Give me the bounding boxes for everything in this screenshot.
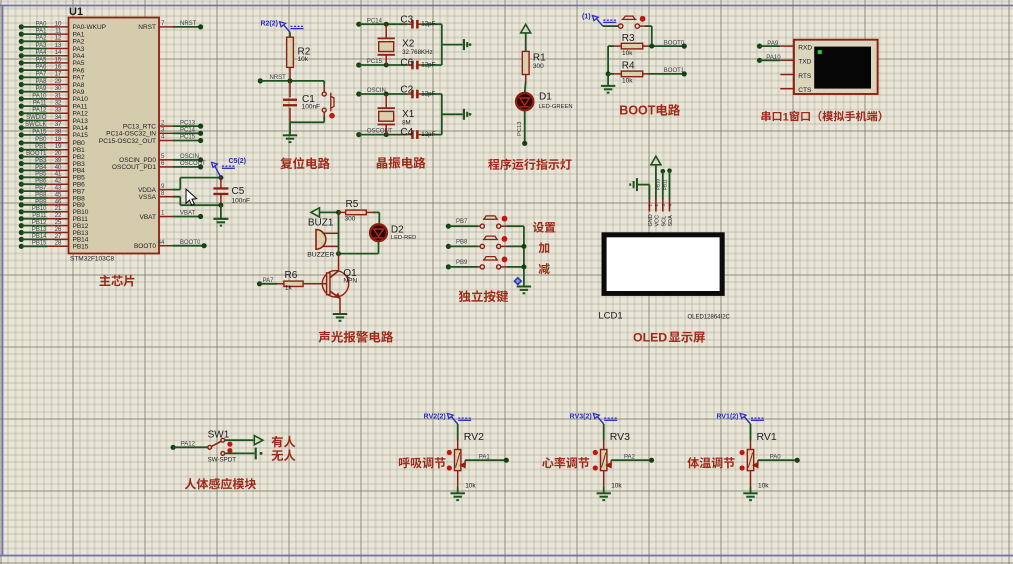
svg-text:PA11: PA11 (73, 103, 88, 110)
svg-text:300: 300 (533, 63, 544, 70)
svg-text:PA15: PA15 (73, 132, 89, 139)
svg-text:10k: 10k (758, 483, 769, 490)
svg-text:PA2: PA2 (73, 39, 85, 46)
svg-text:CTS: CTS (798, 87, 812, 94)
svg-text:8M: 8M (402, 120, 411, 127)
svg-text:OSCIN_PD0: OSCIN_PD0 (119, 157, 156, 164)
svg-text:GND: GND (648, 214, 654, 226)
svg-text:8: 8 (161, 190, 165, 197)
svg-text:SW-SPDT: SW-SPDT (208, 456, 237, 463)
svg-text:STM32F103C8: STM32F103C8 (70, 256, 114, 263)
svg-text:15: 15 (55, 56, 62, 63)
svg-text:RV2: RV2 (464, 431, 484, 443)
svg-text:PA13: PA13 (73, 118, 89, 125)
svg-text:RV3: RV3 (610, 431, 630, 443)
svg-text:PC15: PC15 (180, 135, 196, 141)
svg-text:PA0: PA0 (36, 21, 48, 27)
svg-text:RTS: RTS (798, 73, 812, 80)
svg-text:12pF: 12pF (421, 61, 435, 68)
svg-text:PA11: PA11 (33, 101, 47, 107)
svg-text:PA0: PA0 (770, 454, 782, 460)
svg-text:PA10: PA10 (32, 93, 47, 99)
svg-text:OLED12864I2C: OLED12864I2C (688, 314, 731, 320)
svg-text:PB1: PB1 (35, 144, 47, 150)
svg-text:PB11: PB11 (663, 179, 668, 190)
svg-text:PC13_RTC: PC13_RTC (123, 123, 156, 130)
svg-text:PA5: PA5 (73, 60, 85, 67)
svg-text:34: 34 (55, 114, 62, 121)
svg-text:PB10: PB10 (32, 206, 47, 212)
svg-text:PB9: PB9 (35, 199, 47, 205)
svg-text:PA6: PA6 (36, 65, 48, 71)
svg-text:LED-RED: LED-RED (391, 235, 416, 241)
svg-text:PC13: PC13 (180, 120, 196, 126)
svg-text:NRST: NRST (138, 24, 156, 31)
svg-text:C6: C6 (400, 58, 413, 69)
svg-text:SWCLK: SWCLK (25, 122, 46, 128)
svg-text:BUZZER: BUZZER (307, 252, 334, 259)
svg-text:NPN: NPN (343, 278, 357, 285)
svg-text:BOOT0: BOOT0 (180, 240, 201, 246)
svg-text:NRST: NRST (270, 75, 287, 81)
svg-text:PA9: PA9 (73, 89, 85, 96)
svg-text:PA7: PA7 (263, 278, 275, 284)
svg-text:300: 300 (345, 215, 356, 222)
svg-text:PB5: PB5 (35, 172, 47, 178)
svg-text:44: 44 (158, 239, 165, 246)
svg-text:BOOT1: BOOT1 (26, 151, 47, 157)
svg-text:PA15: PA15 (32, 129, 47, 135)
svg-text:29: 29 (55, 78, 62, 85)
svg-text:PB7: PB7 (456, 219, 468, 225)
svg-text:PA7: PA7 (73, 75, 85, 82)
svg-text:12pF: 12pF (421, 21, 435, 28)
svg-text:6: 6 (161, 160, 165, 167)
svg-text:PA5: PA5 (36, 57, 48, 63)
svg-text:R6: R6 (285, 270, 298, 281)
svg-text:PB3: PB3 (35, 158, 47, 164)
svg-text:32.768KHz: 32.768KHz (402, 49, 433, 56)
svg-text:PA7: PA7 (36, 72, 48, 78)
svg-text:PA4: PA4 (36, 50, 48, 56)
svg-text:PB13: PB13 (32, 227, 47, 233)
svg-text:32: 32 (55, 100, 62, 107)
svg-text:PB14: PB14 (32, 234, 47, 240)
svg-text:9: 9 (161, 183, 165, 190)
svg-text:R2(2): R2(2) (260, 20, 278, 27)
svg-text:PB15: PB15 (32, 241, 47, 247)
svg-text:14: 14 (55, 49, 62, 56)
svg-text:PA2: PA2 (624, 454, 636, 460)
svg-text:10k: 10k (298, 56, 309, 63)
svg-text:BOOT1: BOOT1 (664, 68, 685, 74)
svg-text:VBAT: VBAT (140, 214, 157, 221)
svg-text:RXD: RXD (798, 44, 812, 51)
svg-text:37: 37 (55, 121, 62, 128)
svg-text:10: 10 (55, 20, 62, 27)
svg-text:PA10: PA10 (766, 55, 781, 61)
svg-text:D1: D1 (539, 91, 552, 102)
svg-text:2: 2 (161, 119, 165, 126)
svg-text:SDA: SDA (668, 215, 674, 227)
svg-text:PA12: PA12 (32, 108, 47, 114)
svg-text:LED-GREEN: LED-GREEN (539, 104, 573, 110)
svg-text:PB10: PB10 (656, 178, 661, 190)
svg-text:28: 28 (55, 240, 62, 247)
svg-text:10k: 10k (622, 50, 633, 57)
svg-text:OSCOUT_PD1: OSCOUT_PD1 (112, 164, 156, 171)
svg-text:R4: R4 (622, 61, 635, 72)
svg-text:C3: C3 (400, 15, 413, 26)
svg-text:SW1: SW1 (208, 429, 230, 440)
svg-text:C5: C5 (232, 186, 245, 197)
svg-text:U1: U1 (69, 6, 83, 18)
svg-text:PA10: PA10 (73, 96, 89, 103)
svg-text:PA8: PA8 (73, 82, 85, 89)
svg-text:C2: C2 (400, 84, 413, 95)
svg-text:RV2(2): RV2(2) (424, 413, 446, 420)
svg-text:OLED: OLED (633, 331, 667, 345)
svg-text:16: 16 (55, 64, 62, 71)
svg-text:PC14-OSC32_IN: PC14-OSC32_IN (106, 131, 156, 138)
svg-text:BOOT: BOOT (619, 104, 655, 118)
svg-text:PA8: PA8 (36, 79, 48, 85)
svg-text:PB8: PB8 (456, 239, 468, 245)
svg-text:10k: 10k (611, 483, 622, 490)
svg-text:BUZ1: BUZ1 (308, 217, 334, 228)
svg-text:12pF: 12pF (421, 90, 435, 97)
svg-text:PA9: PA9 (36, 86, 48, 92)
svg-text:OSCIN: OSCIN (180, 154, 199, 160)
svg-text:RV3(2): RV3(2) (570, 413, 592, 420)
svg-text:33: 33 (55, 107, 62, 114)
svg-text:PA12: PA12 (73, 111, 89, 118)
svg-text:1: 1 (161, 210, 165, 217)
svg-text:VSSA: VSSA (139, 194, 157, 201)
svg-text:30: 30 (55, 85, 62, 92)
svg-text:PA14: PA14 (73, 125, 89, 132)
svg-text:PA6: PA6 (73, 67, 85, 74)
svg-text:TXD: TXD (798, 59, 811, 66)
svg-text:11: 11 (55, 28, 62, 35)
svg-text:100nF: 100nF (302, 103, 320, 110)
svg-text:PA3: PA3 (73, 46, 85, 53)
svg-text:12: 12 (55, 35, 62, 42)
svg-text:1: 1 (783, 111, 789, 123)
svg-text:PA1: PA1 (73, 31, 85, 38)
svg-text:10k: 10k (622, 77, 633, 84)
svg-text:PC14: PC14 (180, 128, 196, 134)
svg-text:PB0: PB0 (35, 137, 47, 143)
svg-text:PB11: PB11 (32, 213, 47, 219)
svg-text:12pF: 12pF (421, 131, 435, 138)
svg-text:PA9: PA9 (767, 41, 779, 47)
svg-text:17: 17 (55, 71, 62, 78)
svg-text:4: 4 (161, 134, 165, 141)
svg-text:PC13: PC13 (517, 121, 523, 136)
svg-text:PC15-OSC32_OUT: PC15-OSC32_OUT (99, 138, 156, 145)
svg-text:VCC: VCC (655, 215, 661, 227)
svg-text:BOOT0: BOOT0 (134, 243, 156, 250)
svg-text:SCL: SCL (661, 216, 667, 227)
svg-text:100nF: 100nF (232, 198, 250, 205)
svg-text:SWDIO: SWDIO (26, 115, 47, 121)
svg-text:PA3: PA3 (36, 43, 48, 49)
svg-text:VBAT: VBAT (180, 211, 196, 217)
svg-text:5: 5 (161, 153, 165, 160)
svg-text:PA4: PA4 (73, 53, 85, 60)
svg-text:13: 13 (55, 42, 62, 49)
svg-text:3: 3 (161, 127, 165, 134)
svg-text:C5(2): C5(2) (229, 158, 247, 165)
svg-text:PB4: PB4 (35, 165, 47, 171)
svg-text:PB15: PB15 (73, 244, 89, 251)
svg-text:R5: R5 (346, 199, 359, 210)
svg-text:PB9: PB9 (456, 260, 468, 266)
svg-text:OSCOUT: OSCOUT (180, 161, 206, 167)
svg-text:RV1: RV1 (757, 431, 777, 443)
svg-text:PB12: PB12 (32, 220, 47, 226)
svg-text:PB8: PB8 (35, 192, 47, 198)
svg-text:(1): (1) (582, 14, 591, 21)
svg-text:10k: 10k (465, 483, 476, 490)
svg-text:1k: 1k (285, 284, 293, 291)
svg-text:PA2: PA2 (36, 36, 48, 42)
svg-text:PA1: PA1 (36, 29, 48, 35)
svg-text:BOOT0: BOOT0 (664, 40, 685, 46)
svg-text:NRST: NRST (180, 21, 197, 27)
svg-text:PA1: PA1 (479, 454, 491, 460)
svg-text:R3: R3 (622, 33, 635, 44)
svg-text:38: 38 (55, 128, 62, 135)
svg-text:C4: C4 (400, 127, 413, 138)
svg-text:VDDA: VDDA (138, 187, 157, 194)
svg-text:PB6: PB6 (35, 179, 47, 185)
svg-text:PA12: PA12 (181, 441, 196, 447)
svg-text:31: 31 (55, 92, 62, 99)
svg-text:RV1(2): RV1(2) (716, 413, 738, 420)
svg-text:PA0-WKUP: PA0-WKUP (73, 24, 106, 31)
svg-text:7: 7 (161, 20, 165, 27)
svg-text:PB7: PB7 (35, 186, 47, 192)
svg-text:X1: X1 (402, 109, 415, 120)
svg-text:LCD1: LCD1 (598, 310, 622, 321)
